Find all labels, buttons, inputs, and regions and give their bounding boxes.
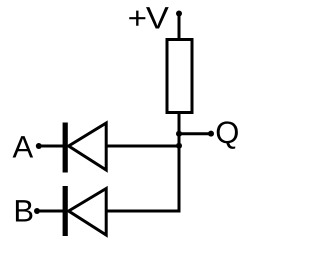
Q terminal dot [208, 131, 214, 137]
input label B [13, 194, 34, 229]
+V terminal dot [176, 11, 182, 17]
diode D2 triangle [69, 189, 107, 236]
svg-text:B: B [13, 194, 34, 229]
input A terminal dot [36, 143, 42, 149]
svg-text:V: V [146, 1, 169, 36]
svg-text:+: + [128, 1, 147, 36]
diode D1 triangle [69, 123, 107, 170]
input B terminal dot [34, 208, 40, 214]
wire diode D2 anode to node corner [106, 210, 180, 213]
wire +V terminal to resistor top [178, 14, 181, 40]
diode D1 cathode bar [63, 123, 68, 173]
resistor R1 [167, 40, 192, 113]
wire A terminal to diode D1 cathode [39, 145, 63, 148]
wire diode D1 anode to node [106, 145, 179, 148]
wire node to Q terminal [179, 132, 211, 135]
svg-text:Q: Q [215, 115, 239, 150]
input label A [13, 130, 34, 165]
supply label +V [128, 1, 170, 36]
junction node Q branch [176, 131, 182, 137]
junction diode A branch [176, 143, 182, 149]
svg-text:A: A [13, 130, 34, 165]
wire resistor bottom to node corner [178, 113, 181, 212]
diode D2 cathode bar [63, 186, 68, 236]
output label Q [215, 115, 239, 150]
wire B terminal to diode D2 cathode [37, 210, 63, 213]
